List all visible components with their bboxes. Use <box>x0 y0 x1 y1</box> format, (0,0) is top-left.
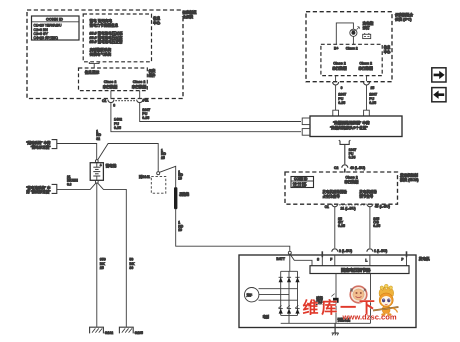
rectifier bottom rail <box>281 314 298 316</box>
svg-text:F11: F11 <box>143 99 149 103</box>
battery telltale icon <box>363 33 371 38</box>
svg-text:仪表板组: 仪表板组 <box>182 10 197 15</box>
diode D2 <box>287 277 291 282</box>
svg-text:仪表: 仪表 <box>148 68 156 73</box>
battery B1 <box>90 160 103 183</box>
svg-text:0.35: 0.35 <box>369 101 376 105</box>
wire: pin9 down to DLC <box>335 85 337 110</box>
svg-text:+: + <box>100 163 102 167</box>
ground G105 <box>119 327 143 335</box>
svg-text:Class 2: Class 2 <box>359 62 372 66</box>
svg-text:信息: 信息 <box>153 15 161 20</box>
svg-text:“数据线路接头5个位置”: “数据线路接头5个位置” <box>330 125 368 130</box>
wire: pin40 to generator L <box>369 207 371 248</box>
svg-text:信息显示: 信息显示 <box>85 70 100 75</box>
svg-text:组件: 组件 <box>149 72 156 77</box>
label: IPC right outside name <box>394 12 413 22</box>
CONN ID table (IPC left) <box>32 16 80 40</box>
DIC inner dashed box (right) <box>321 44 382 75</box>
svg-text:CONN ID: CONN ID <box>46 17 63 22</box>
connector 2 (generator F terminal) <box>332 249 352 253</box>
svg-text:www.dzsc.com: www.dzsc.com <box>342 313 397 322</box>
svg-text:仪表板组合: 仪表板组合 <box>394 12 413 17</box>
wire label 1 RD 19 <box>178 170 183 181</box>
arrow box (forward) <box>432 68 446 82</box>
connector F11 <box>137 99 149 103</box>
connector pin 25 <box>364 82 375 90</box>
svg-text:950: 950 <box>100 257 106 261</box>
svg-text:我: 我 <box>350 287 353 292</box>
DLC top bracket right <box>364 110 370 116</box>
svg-text:25: 25 <box>100 266 104 270</box>
svg-text:49 (L-BU): 49 (L-BU) <box>350 166 365 170</box>
svg-text:1 (L-BU): 1 (L-BU) <box>374 249 387 253</box>
wire: class2 left exit <box>110 91 112 99</box>
wire: fusible link to generator BATT <box>176 209 290 251</box>
wire label 1807 PU 0.35 (left) <box>142 108 150 120</box>
svg-text:B+: B+ <box>334 47 338 51</box>
svg-text:合仪表: 合仪表 <box>182 14 194 19</box>
svg-text:“蓄电池系统” 中: “蓄电池系统” 中 <box>26 185 51 190</box>
svg-text:串行数据: 串行数据 <box>332 65 347 70</box>
wire label 225 OG 0.35 <box>373 217 380 228</box>
svg-text:0.35: 0.35 <box>114 126 121 130</box>
BATT terminal <box>276 251 291 261</box>
svg-text:L: L <box>365 258 367 262</box>
svg-text:0.8: 0.8 <box>67 182 72 186</box>
wire: telltale loop <box>336 23 353 44</box>
svg-text:电刷: 电刷 <box>263 314 269 319</box>
wire: splice to fusible link <box>160 166 176 187</box>
wire label 1807 PU 0.35 (pin9) <box>338 93 346 105</box>
svg-text:G105: G105 <box>135 331 143 335</box>
connector C2 pin 49 <box>334 165 365 173</box>
svg-text:发电机磁场涡轮: 发电机磁场涡轮 <box>322 189 347 194</box>
ground rail inside generator <box>281 322 371 324</box>
svg-text:C4=20 (GY/BK): C4=20 (GY/BK) <box>34 36 58 40</box>
svg-text:串行数据: 串行数据 <box>132 84 147 89</box>
wire: battery positive to splice <box>98 144 159 172</box>
svg-text:的 “接线示意图”: 的 “接线示意图” <box>26 189 51 194</box>
diode D3 <box>295 277 299 282</box>
serial data dashed box (inner bottom) <box>79 68 148 91</box>
svg-text:50: 50 <box>129 257 133 261</box>
wire label 1402 PU 0.35 <box>114 118 122 130</box>
diode D1 <box>279 277 283 282</box>
svg-text:串行数据: 串行数据 <box>358 65 373 70</box>
wire label 1807 PU 0.35 (pin25) <box>369 93 377 105</box>
wire: BATT into rectifier rail <box>289 254 291 271</box>
svg-text:25: 25 <box>161 156 165 160</box>
svg-text:Class 2: Class 2 <box>104 80 117 84</box>
terminal S stub <box>317 251 322 265</box>
svg-text:C1: C1 <box>102 99 106 103</box>
svg-text:Class 2: Class 2 <box>333 62 346 66</box>
svg-text:S: S <box>317 257 319 261</box>
svg-text:BATT: BATT <box>276 257 285 261</box>
connector stub between message box and serial data box <box>89 62 99 68</box>
svg-text:片: 片 <box>364 287 367 292</box>
fusible link <box>174 187 190 209</box>
CONN ID table (ECM) <box>291 177 314 189</box>
wire: DLC to ECM C2-49 <box>344 144 346 164</box>
svg-text:易熔线: 易熔线 <box>178 191 190 196</box>
DLC left tab lower <box>302 129 310 136</box>
watermark stamp <box>350 286 367 303</box>
rectifier column 3 <box>297 271 299 315</box>
diode D6 <box>295 305 299 313</box>
svg-text:30: 30 <box>129 266 133 270</box>
diode D4 <box>278 305 282 313</box>
label: message center name <box>153 15 161 25</box>
svg-text:模块 (ECM): 模块 (ECM) <box>400 177 419 182</box>
wire: battery negative to ground G102 <box>96 183 98 327</box>
wire: battery negative to reference <box>57 183 96 190</box>
svg-text:19: 19 <box>178 177 182 181</box>
svg-text:Class 2: Class 2 <box>345 176 357 180</box>
ground G102 <box>90 327 114 335</box>
svg-text:C2=80 BK: C2=80 BK <box>293 184 307 188</box>
wire: rectifier to ground rail <box>288 315 290 323</box>
generator box <box>239 255 416 328</box>
lamp light arrow <box>357 26 360 29</box>
label: Class 2 serial data (ECM top) <box>344 176 358 184</box>
svg-text:固态电压调节器: 固态电压调节器 <box>341 267 371 274</box>
svg-text:蓄电力节能器信息: 蓄电力节能器信息 <box>90 23 119 28</box>
voltage regulator U1 <box>310 266 409 274</box>
connector 1 (generator L terminal) <box>367 249 387 253</box>
svg-text:25: 25 <box>371 86 375 90</box>
svg-text:##.# 蓄电池电压正常: ##.# 蓄电池电压正常 <box>90 39 124 44</box>
svg-text:蓄电池: 蓄电池 <box>106 163 117 168</box>
wire: regulator ground return <box>370 274 372 324</box>
label: lower inner box right name <box>148 68 156 77</box>
svg-text:0.35: 0.35 <box>349 156 356 160</box>
wire label 1807 PU 0.35 (DLC to ECM) <box>349 148 357 160</box>
rectifier column 2 <box>288 271 290 315</box>
wire: right class2 right exit <box>366 76 368 82</box>
instrument panel cluster (left) dashed box <box>27 10 183 99</box>
svg-text:C2: C2 <box>334 166 338 170</box>
svg-text:蓄电 池无充电: 蓄电 池无充电 <box>90 18 113 23</box>
svg-text:BK: BK <box>129 262 135 266</box>
svg-text:充电指: 充电指 <box>363 20 374 25</box>
ground stem G (generator case) <box>334 323 336 333</box>
wire label 50 BK 30 <box>129 257 135 270</box>
svg-text:C1: C1 <box>325 205 329 209</box>
terminal L wire into regulator <box>365 255 370 266</box>
svg-text:8: 8 <box>113 104 115 108</box>
svg-text:启辅警报系统: 启辅警报系统 <box>90 47 112 52</box>
wire: lamp to inner box <box>352 36 354 44</box>
svg-text:占空比信号: 占空比信号 <box>322 193 340 198</box>
svg-text:BK: BK <box>100 262 106 266</box>
svg-text:中心: 中心 <box>153 20 161 25</box>
engine control module (ECM) dashed box <box>285 172 398 204</box>
rectifier top rail <box>281 270 298 272</box>
wire: F11 to DLC upper tab <box>140 103 301 122</box>
wire label 1 RD 32 <box>96 129 101 141</box>
connector pin 9 <box>333 82 343 90</box>
connector pin 40 <box>367 204 390 209</box>
label: right inner box name <box>384 45 391 54</box>
wire: right class2 left exit <box>335 76 337 82</box>
wire: pin21 to generator F <box>334 207 336 248</box>
label: IPC left box outside name <box>182 10 197 19</box>
dotted tie between pin21 and pin40 <box>339 204 365 206</box>
DLC top bracket left <box>333 110 339 116</box>
svg-text:19: 19 <box>178 228 182 232</box>
rotor field winding <box>331 274 338 324</box>
svg-text:仪表 (IPC): 仪表 (IPC) <box>394 17 412 22</box>
label: charge indicator <box>362 20 374 29</box>
message display dashed box (inner top) <box>83 14 151 62</box>
svg-text:发电机: 发电机 <box>418 256 430 261</box>
svg-text:到S141: 到S141 <box>139 174 150 179</box>
svg-text:示灯: 示灯 <box>362 25 371 30</box>
label: field rotor <box>315 295 324 304</box>
svg-text:调节信号: 调节信号 <box>359 193 373 198</box>
svg-text:##.# 蓄电池电压过低: ##.# 蓄电池电压过低 <box>90 30 124 35</box>
svg-text:0.35: 0.35 <box>338 101 345 105</box>
svg-text:“数据链路连接器” 中的: “数据链路连接器” 中的 <box>333 120 370 125</box>
connector C1 pin 8 <box>102 99 115 108</box>
DLC bottom bracket <box>339 140 351 144</box>
splice S141 <box>139 172 160 179</box>
off-page reference: battery harness <box>26 184 57 194</box>
svg-text:2 (L-BU): 2 (L-BU) <box>339 249 352 253</box>
splice dashed box <box>151 176 166 193</box>
svg-text:中心: 中心 <box>384 49 391 54</box>
DLC left tab upper <box>302 118 310 125</box>
svg-text:Class 2: Class 2 <box>346 47 358 51</box>
data link connector (DLC) box <box>310 116 402 137</box>
svg-text:定子: 定子 <box>246 293 253 297</box>
wire: C1-8 to DLC lower tab <box>111 103 301 132</box>
svg-text:“起动系统” 中的: “起动系统” 中的 <box>26 140 51 145</box>
svg-text:P: P <box>401 257 404 261</box>
connector C1 pin 21 <box>325 204 356 211</box>
svg-text:发电机磁场: 发电机磁场 <box>359 189 377 194</box>
stator phase wire A <box>259 288 298 290</box>
svg-text:信息: 信息 <box>384 45 391 50</box>
wire: class2 right exit <box>139 91 141 99</box>
wire: pin25 down to DLC <box>366 85 368 110</box>
svg-text:0.35: 0.35 <box>373 224 380 228</box>
arrow box (backward) <box>432 88 446 102</box>
wire label 950 BK 25 <box>100 257 106 270</box>
label: ECM outside name <box>399 173 419 183</box>
wire label 25 GY 0.35 <box>338 217 345 228</box>
instrument panel cluster (right) dashed box <box>306 12 392 82</box>
svg-text:“配电示意图”: “配电示意图” <box>31 144 52 149</box>
stator winding circle <box>245 288 259 302</box>
label: generator field duty cycle signal <box>322 189 347 198</box>
svg-text:串行数据: 串行数据 <box>344 179 358 184</box>
label: generator field regulate signal <box>359 189 377 198</box>
svg-text:0.35: 0.35 <box>142 116 149 120</box>
indicator lamp (charge telltale) <box>350 29 357 36</box>
stator phase wire C <box>259 299 298 301</box>
svg-text:40 (L-BU): 40 (L-BU) <box>375 205 390 209</box>
wire 1 RD 32 to battery <box>57 144 97 160</box>
svg-text:发动机控制: 发动机控制 <box>399 173 418 178</box>
svg-text:串行数据: 串行数据 <box>103 84 118 89</box>
rectifier column 1 <box>280 271 282 315</box>
stator phase wire B <box>259 293 289 295</box>
svg-text:9: 9 <box>341 86 343 90</box>
svg-text:G102: G102 <box>105 331 113 335</box>
diode D5 <box>287 305 291 313</box>
watermark mascot <box>373 284 399 316</box>
svg-text:32: 32 <box>96 137 100 141</box>
svg-text:Class 2: Class 2 <box>133 80 146 84</box>
terminal P stub <box>401 251 406 265</box>
dotted tie between C1 and F11 <box>115 100 135 102</box>
svg-text:##.# 蓄电池电压过高: ##.# 蓄电池电压过高 <box>90 35 124 40</box>
svg-text:21 (L-BU): 21 (L-BU) <box>341 206 356 210</box>
svg-text:伺候电气系统: 伺候电气系统 <box>90 52 112 57</box>
wire label 1 RD 19 (lower) <box>178 221 183 233</box>
ground symbol (generator) <box>332 333 339 335</box>
wire: battery negative to ground G105 <box>98 183 127 327</box>
off-page reference: power distribution <box>26 140 57 150</box>
wire: BATT sense to regulator <box>291 255 312 266</box>
svg-text:0.35: 0.35 <box>338 224 345 228</box>
wire label 1 RD 25 <box>161 149 166 160</box>
terminal F wire into regulator <box>330 255 335 266</box>
wire label 21 BK/WH 0.8 <box>67 175 78 187</box>
svg-text:F: F <box>330 258 332 262</box>
